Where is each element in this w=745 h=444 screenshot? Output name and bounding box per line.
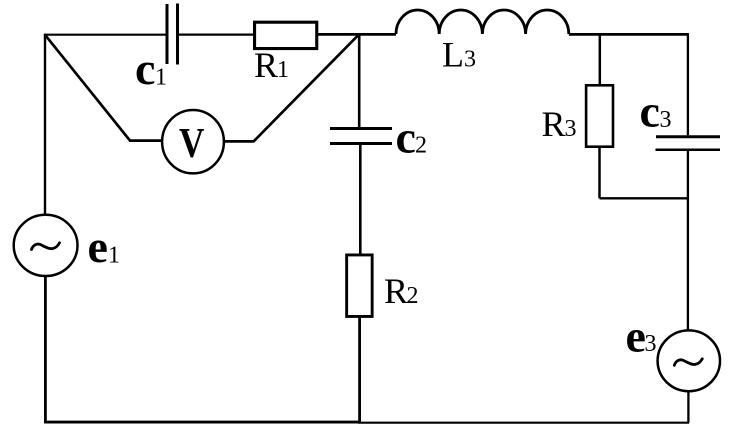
svg-text:V: V: [179, 121, 205, 167]
svg-text:c: c: [640, 86, 660, 137]
svg-text:e: e: [626, 310, 646, 361]
svg-text:3: 3: [464, 47, 476, 73]
svg-text:R: R: [384, 271, 408, 311]
svg-text:L: L: [442, 35, 464, 75]
svg-text:2: 2: [415, 133, 427, 159]
svg-text:3: 3: [565, 116, 577, 142]
svg-text:3: 3: [660, 107, 672, 133]
svg-text:R: R: [254, 45, 278, 85]
svg-text:R: R: [542, 104, 566, 144]
svg-text:e: e: [88, 221, 108, 272]
svg-text:c: c: [135, 43, 155, 94]
svg-text:3: 3: [645, 331, 657, 357]
svg-text:2: 2: [407, 283, 419, 309]
svg-text:c: c: [396, 111, 416, 162]
svg-text:1: 1: [108, 243, 120, 269]
svg-text:1: 1: [277, 57, 289, 83]
svg-text:1: 1: [155, 65, 167, 91]
